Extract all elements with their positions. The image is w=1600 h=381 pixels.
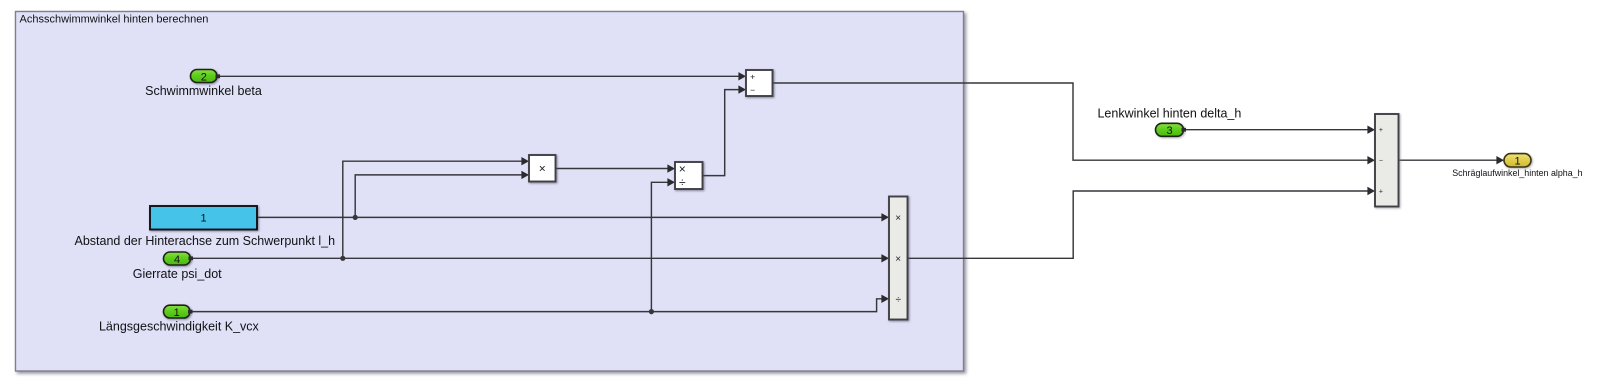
junction node on port1 line — [649, 309, 654, 314]
wire sum1 to sum2 — [773, 83, 1368, 160]
wire product2 to sum2 in3 — [908, 191, 1368, 258]
sum block sum2 — [1375, 114, 1399, 207]
junction node on port4 line — [340, 256, 345, 261]
svg-text:×: × — [539, 161, 546, 175]
svg-text:×: × — [895, 213, 901, 224]
svg-text:Gierrate psi_dot: Gierrate psi_dot — [133, 267, 222, 281]
svg-text:×: × — [679, 162, 686, 176]
svg-text:Abstand der Hinterachse zum Sc: Abstand der Hinterachse zum Schwerpunkt … — [75, 234, 336, 248]
svg-text:1: 1 — [1514, 155, 1520, 167]
svg-text:4: 4 — [174, 254, 180, 266]
svg-text:×: × — [895, 254, 901, 265]
svg-text:Achsschwimmwinkel hinten berec: Achsschwimmwinkel hinten berechnen — [20, 13, 209, 25]
wire port3 to sum2 in1 — [1184, 129, 1368, 131]
svg-text:Schräglaufwinkel_hinten alpha_: Schräglaufwinkel_hinten alpha_h — [1452, 168, 1582, 178]
outport 1 — [1504, 154, 1531, 167]
wire branch to product1 in2 — [355, 175, 521, 218]
wire product1 to divide in1 — [556, 168, 668, 170]
inport 3 — [1156, 123, 1184, 136]
svg-text:+: + — [750, 72, 755, 82]
svg-text:÷: ÷ — [895, 294, 901, 305]
sum block sum1 — [746, 70, 773, 96]
wire port1 to product2 in3 — [190, 299, 881, 312]
svg-text:−: − — [750, 85, 755, 95]
svg-text:1: 1 — [174, 307, 180, 319]
wire branch to divide in2 — [651, 182, 667, 311]
product block product2 — [889, 197, 908, 320]
svg-text:Längsgeschwindigkeit K_vcx: Längsgeschwindigkeit K_vcx — [99, 320, 260, 334]
svg-text:+: + — [1379, 127, 1383, 134]
product block product1 — [529, 155, 556, 182]
inport 1 — [164, 305, 191, 318]
svg-text:2: 2 — [201, 71, 207, 83]
svg-text:Schwimmwinkel beta: Schwimmwinkel beta — [145, 84, 262, 98]
wire port4 to product2 in2 — [191, 257, 881, 259]
svg-text:−: − — [1379, 158, 1383, 165]
svg-text:+: + — [1379, 189, 1383, 196]
arrowheads — [521, 72, 1504, 303]
wire divide to sum1 in2 — [703, 90, 739, 176]
wire blue block to product2 in1 — [258, 216, 882, 218]
wire sum2 to outport1 — [1399, 159, 1497, 161]
svg-text:Lenkwinkel hinten delta_h: Lenkwinkel hinten delta_h — [1097, 107, 1241, 121]
svg-text:3: 3 — [1166, 125, 1172, 137]
subsystem area Achsschwimmwinkel hinten berechnen — [16, 12, 964, 372]
junction node on blue line — [353, 215, 358, 220]
wire branch to product1 in1 — [343, 161, 522, 258]
svg-text:1: 1 — [200, 213, 206, 225]
wire port2 to sum1 — [190, 76, 1496, 311]
product block divide — [675, 162, 703, 189]
svg-text:÷: ÷ — [679, 176, 686, 190]
inport 4 — [164, 252, 191, 265]
constant block l_h — [150, 206, 257, 230]
inport 2 — [191, 70, 218, 83]
port pin nubs — [188, 74, 1186, 313]
